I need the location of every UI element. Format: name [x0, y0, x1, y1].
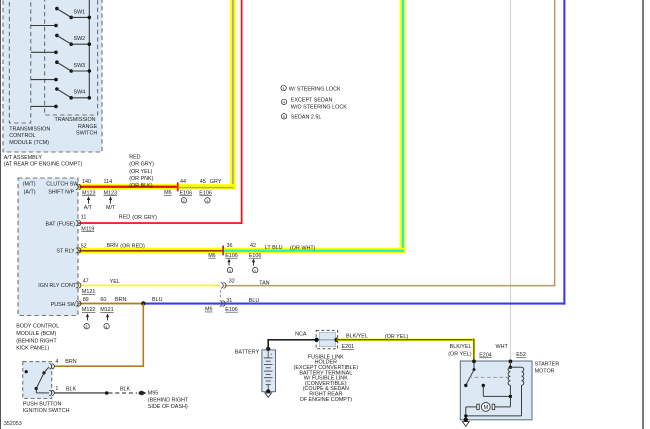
row3 arrow to E106 pin42: [252, 259, 255, 266]
row3 circled 4: [227, 267, 232, 273]
svg-text:YEL: YEL: [110, 279, 120, 285]
svg-text:KICK PANEL): KICK PANEL): [16, 346, 49, 352]
starter ground: [462, 418, 469, 427]
TCM stub wire 3: [31, 78, 58, 82]
svg-text:E106: E106: [199, 190, 212, 196]
svg-text:(OR WHT): (OR WHT): [290, 246, 316, 252]
BCM pin name labels: [23, 181, 80, 308]
label TCM: [9, 127, 50, 146]
wire row4 vertical tan to top: [554, 0, 556, 286]
row1 circled 2: [181, 198, 186, 204]
svg-text:RANGE: RANGE: [78, 124, 98, 130]
svg-text:SW1: SW1: [74, 9, 86, 15]
svg-text:E201: E201: [342, 344, 355, 350]
row1 arrow A/T: [84, 196, 93, 211]
svg-text:SWITCH: SWITCH: [76, 131, 97, 137]
svg-text:E106: E106: [249, 253, 262, 259]
svg-text:(OR YEL): (OR YEL): [385, 334, 408, 340]
wire brown horizontal to ignition switch pin4: [54, 365, 144, 367]
connector at BCM pin row2: [76, 220, 81, 225]
wire WHT gray vertical to starter: [510, 0, 511, 361]
legend circled 4 note: [281, 98, 347, 111]
svg-text:BRN: BRN: [107, 243, 118, 249]
svg-text:60: 60: [100, 297, 106, 303]
row3 arrow to E106 pin36: [227, 259, 230, 266]
svg-text:SW4: SW4: [74, 90, 86, 96]
svg-text:(M/T): (M/T): [23, 181, 36, 187]
svg-text:BRN: BRN: [65, 359, 76, 365]
starter solenoid coil right: [510, 367, 523, 416]
page left border: [0, 0, 1, 429]
svg-text:3: 3: [85, 324, 87, 329]
svg-text:TRANSMISSION: TRANSMISSION: [9, 127, 50, 133]
svg-text:M123: M123: [82, 190, 96, 196]
row1 circled 1: [205, 198, 210, 204]
fusible link holder: [314, 330, 354, 350]
svg-text:E106: E106: [225, 253, 238, 259]
row2 labels: [81, 215, 157, 233]
svg-text:32: 32: [229, 279, 235, 285]
svg-text:E52: E52: [516, 352, 526, 358]
connector M6 row4 arcs: [221, 283, 226, 289]
svg-text:SEDAN 2.5L: SEDAN 2.5L: [291, 114, 322, 120]
wire row5 blue horizontal: [143, 303, 565, 305]
switch SW3: [55, 60, 91, 72]
row3 circled 1: [253, 267, 258, 273]
row1 pin labels: [82, 179, 222, 197]
svg-text:42: 42: [250, 243, 256, 249]
label transmission range switch: [55, 117, 98, 136]
svg-text:(BEHIND RIGHT: (BEHIND RIGHT: [148, 397, 189, 403]
svg-text:(OR GRY): (OR GRY): [129, 162, 154, 168]
row1 wire color label stack RED: [129, 154, 154, 189]
ignition switch contacts: [25, 367, 49, 393]
svg-text:BLU: BLU: [249, 298, 260, 304]
wire BLK from ignition pin1: [54, 391, 108, 395]
starter solenoid coil left: [508, 361, 512, 385]
svg-text:SW3: SW3: [74, 63, 86, 69]
legend circled 5 note: [281, 114, 321, 121]
svg-text:(OR RED): (OR RED): [120, 244, 145, 250]
svg-text:(OR YEL): (OR YEL): [448, 351, 471, 357]
wire row5 brown BRN (BCM to junction): [79, 303, 143, 305]
switch SW2: [55, 34, 91, 46]
diagram number 352053: [4, 421, 22, 427]
svg-text:BLK/YEL: BLK/YEL: [346, 334, 368, 340]
svg-text:M6: M6: [208, 253, 216, 259]
svg-text:1: 1: [206, 198, 208, 203]
svg-text:11: 11: [81, 215, 87, 221]
connector at BCM pin row1: [76, 184, 81, 189]
svg-text:140: 140: [82, 179, 91, 185]
svg-text:LT BLU: LT BLU: [265, 245, 283, 251]
push button ignition switch dashed box: [23, 362, 52, 399]
svg-text:BAT (FUSE): BAT (FUSE): [46, 222, 76, 228]
svg-text:3: 3: [282, 86, 284, 91]
svg-text:OF ENGINE COMPT): OF ENGINE COMPT): [300, 397, 353, 403]
svg-text:SIDE OF DASH): SIDE OF DASH): [148, 404, 188, 410]
starter mechanical link dashed: [469, 376, 509, 378]
connector at BCM pin row4: [76, 283, 81, 288]
svg-text:31: 31: [226, 298, 232, 304]
svg-text:BODY CONTROL: BODY CONTROL: [16, 323, 59, 329]
svg-text:BLK/YEL: BLK/YEL: [450, 344, 472, 350]
svg-text:SW2: SW2: [74, 36, 86, 42]
svg-text:M121: M121: [100, 307, 114, 313]
connector M6 row5 arcs: [220, 301, 225, 307]
starter motor M: [477, 403, 495, 412]
svg-text:47: 47: [83, 279, 89, 285]
switch bus wire: [88, 0, 90, 98]
svg-text:(OR PNK): (OR PNK): [129, 176, 153, 182]
svg-text:PUSH SW: PUSH SW: [51, 302, 77, 308]
svg-text:M122: M122: [82, 307, 96, 313]
svg-text:ST RLY: ST RLY: [56, 248, 75, 254]
svg-text:RED: RED: [129, 154, 140, 160]
connector at BCM pin row5: [76, 301, 81, 306]
wire row5 vertical blue to top: [563, 0, 565, 305]
wire BLK dashed to M95: [109, 386, 138, 393]
BCM dashed box: [18, 178, 78, 316]
TCM stub wire 2: [31, 51, 58, 55]
legend circled 3 note: [281, 85, 341, 92]
svg-text:44: 44: [180, 179, 186, 185]
TCM stub wire 4: [31, 105, 58, 109]
svg-text:IGNITION SWITCH: IGNITION SWITCH: [23, 408, 70, 414]
svg-text:(A/T): (A/T): [24, 190, 36, 196]
switch SW1: [55, 7, 91, 19]
ignition switch pin1 connector: [49, 390, 54, 395]
svg-text:1: 1: [55, 386, 58, 392]
wire battery to fusible link NCA: [266, 331, 317, 351]
svg-text:45: 45: [200, 179, 206, 185]
svg-text:4: 4: [55, 359, 58, 365]
svg-text:BLK: BLK: [120, 386, 131, 392]
wire row3 horizontal yellow band: [79, 248, 405, 253]
wire row4 yellow YEL (BCM to M6): [79, 285, 221, 287]
svg-text:BLK: BLK: [66, 386, 77, 392]
node E204 on starter: [472, 360, 476, 364]
svg-text:BRN: BRN: [115, 297, 126, 303]
svg-text:IGN RLY CONT: IGN RLY CONT: [38, 283, 77, 289]
wire BLK/YEL horizontal from fusible link: [337, 334, 476, 342]
svg-text:M6: M6: [164, 190, 172, 196]
row1 arrow M/T: [106, 196, 116, 211]
svg-text:NCA: NCA: [295, 331, 307, 337]
svg-text:PUSH BUTTON: PUSH BUTTON: [23, 402, 62, 408]
svg-text:SHIFT N/P: SHIFT N/P: [48, 190, 74, 196]
svg-text:M119: M119: [81, 226, 94, 232]
svg-text:89: 89: [83, 297, 89, 303]
svg-text:52: 52: [81, 244, 87, 250]
label A/T assembly: [4, 155, 83, 168]
svg-text:CONTROL: CONTROL: [9, 133, 35, 139]
wire row2 vertical red to top: [241, 0, 243, 224]
node E52 on starter: [509, 360, 513, 364]
svg-text:(OR BLK): (OR BLK): [129, 183, 153, 189]
svg-text:TRANSMISSION: TRANSMISSION: [55, 117, 96, 123]
wire BLK/YEL vertical into starter E204: [473, 339, 476, 362]
starter motor box: [460, 361, 532, 420]
wire row3 dark red core BRN (BCM to M6): [79, 250, 222, 252]
transmission range switch dashed box: [45, 0, 98, 115]
svg-text:WHT: WHT: [496, 344, 509, 350]
svg-text:1: 1: [254, 268, 256, 273]
svg-text:(OR GRY): (OR GRY): [132, 215, 157, 221]
ignition pin labels: [55, 359, 76, 393]
svg-text:GRY: GRY: [210, 179, 222, 185]
row3 labels: [81, 243, 316, 259]
wire row3 cyan core LT BLU (M6 to corner): [224, 250, 404, 252]
svg-text:E106: E106: [225, 307, 238, 313]
TCM dashed box: [9, 0, 31, 123]
svg-text:M95: M95: [148, 390, 159, 396]
svg-text:EXCEPT SEDAN: EXCEPT SEDAN: [291, 98, 333, 104]
svg-text:MOTOR: MOTOR: [535, 368, 555, 374]
row5 labels: [82, 297, 259, 313]
svg-text:M/T: M/T: [106, 205, 116, 211]
svg-text:(AT REAR OF ENGINE COMPT): (AT REAR OF ENGINE COMPT): [4, 161, 83, 167]
row5 circled 3: [84, 324, 89, 330]
wire row4 tan TAN (M6 to corner): [225, 285, 556, 287]
wire row3 vertical yellow/cyan to top: [400, 0, 406, 253]
svg-text:114: 114: [104, 179, 113, 185]
starter solenoid switch: [464, 361, 485, 387]
TCM stub wire 1: [31, 24, 58, 28]
wire row1 gray core GRY (M6 to corner): [179, 187, 234, 189]
wire row2 red horizontal: [79, 222, 243, 224]
label push button ignition switch: [23, 402, 70, 414]
starter area labels: [448, 344, 559, 375]
svg-text:E106: E106: [180, 190, 193, 196]
wire row1 horizontal yellow band: [79, 184, 236, 190]
svg-text:2: 2: [183, 198, 185, 203]
svg-text:MODULE (BCM): MODULE (BCM): [16, 331, 56, 337]
svg-text:(OR YEL): (OR YEL): [129, 169, 152, 175]
battery bottom ground node: [265, 389, 272, 397]
svg-text:RED: RED: [119, 215, 130, 221]
label BCM: [16, 323, 59, 351]
svg-text:M123: M123: [104, 190, 118, 196]
page right border: [642, 0, 643, 429]
svg-text:A/T: A/T: [84, 205, 93, 211]
svg-text:TAN: TAN: [259, 281, 269, 287]
svg-text:E204: E204: [479, 353, 492, 359]
svg-text:M6: M6: [205, 307, 213, 313]
row5 circled 4: [104, 324, 109, 330]
svg-text:STARTER: STARTER: [535, 362, 560, 368]
row5 arrow to M122: [86, 313, 89, 320]
wire brown vertical to ignition switch: [143, 304, 145, 368]
svg-text:352053: 352053: [4, 421, 22, 427]
starter internal wires: [464, 385, 521, 420]
switch SW4: [55, 87, 91, 99]
svg-text:MODULE (TCM): MODULE (TCM): [9, 140, 49, 146]
connector at BCM pin row3: [76, 248, 81, 253]
fusible link text block: [294, 354, 359, 402]
svg-text:BLU: BLU: [152, 297, 163, 303]
battery: [235, 350, 276, 392]
svg-text:(BEHIND RIGHT: (BEHIND RIGHT: [16, 338, 57, 344]
svg-text:M121: M121: [82, 289, 96, 295]
connector M6 bar row3: [222, 246, 224, 256]
ignition switch pin4 connector: [49, 364, 54, 369]
connector M6 link dashes: [220, 290, 222, 300]
row5 arrow to M121: [106, 313, 109, 320]
connector M6 bar row1: [177, 182, 179, 191]
row4 labels: [82, 279, 270, 296]
svg-text:A/T ASSEMBLY: A/T ASSEMBLY: [4, 155, 43, 161]
svg-text:CLUTCH SW: CLUTCH SW: [46, 181, 79, 187]
svg-text:W/O STEERING LOCK: W/O STEERING LOCK: [291, 105, 347, 111]
svg-text:W/ STEERING LOCK: W/ STEERING LOCK: [289, 86, 341, 92]
wire row1 red core (BCM to M6): [80, 186, 177, 188]
junction node row5: [141, 301, 145, 305]
A/T assembly dashed box: [3, 0, 102, 152]
off-page arrow M95: [139, 390, 189, 410]
wire row1 vertical yellow/gray to top: [230, 0, 236, 190]
svg-text:M: M: [484, 405, 489, 411]
svg-text:5: 5: [283, 114, 285, 119]
svg-text:36: 36: [227, 243, 233, 249]
svg-text:BATTERY: BATTERY: [235, 350, 260, 356]
